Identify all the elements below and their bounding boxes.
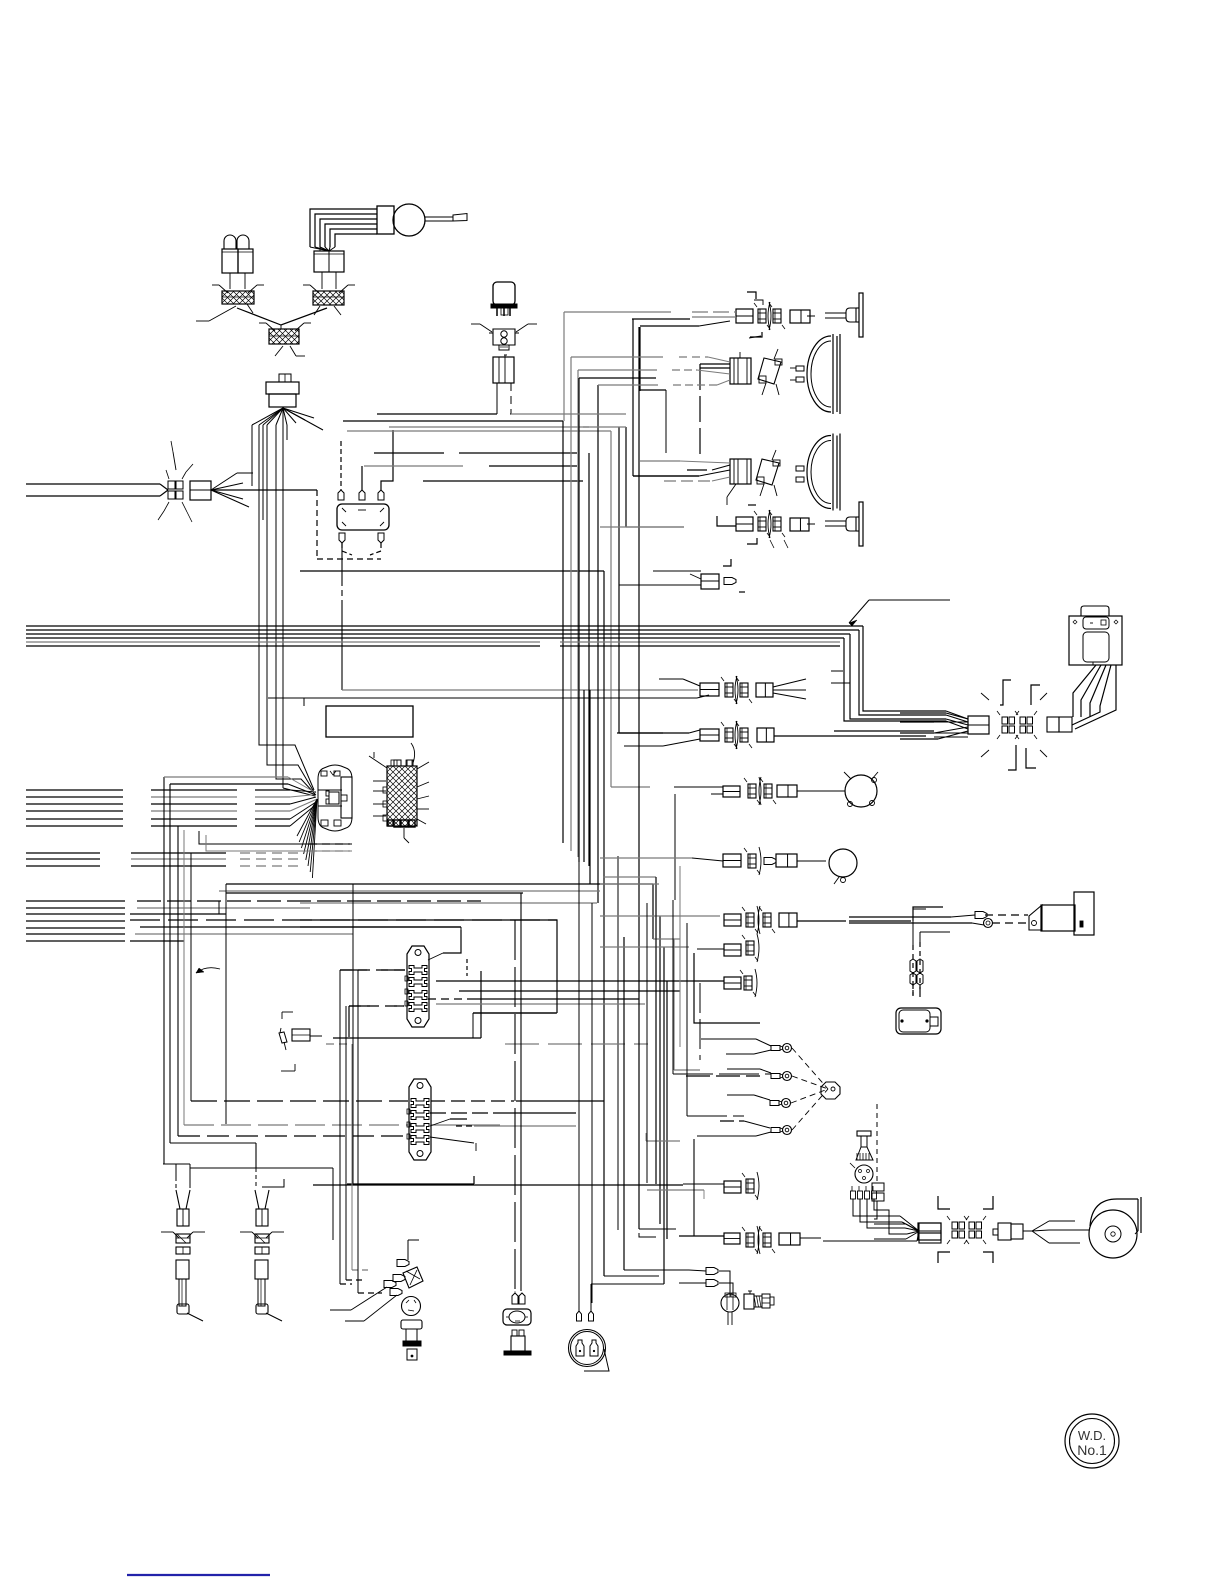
svg-text:No.1: No.1: [1077, 1442, 1107, 1458]
svg-text:W.D.: W.D.: [1078, 1428, 1106, 1443]
